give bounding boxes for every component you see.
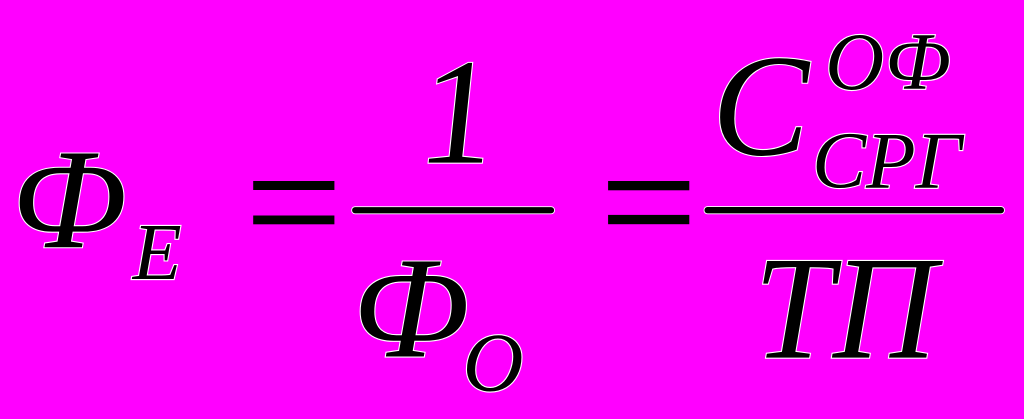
svg-text:С: С bbox=[712, 26, 811, 187]
fraction bar of right fraction bbox=[705, 207, 1005, 213]
svg-text:О: О bbox=[463, 317, 524, 410]
first equals sign bbox=[253, 181, 334, 224]
svg-text:Ф: Ф bbox=[352, 229, 469, 389]
fraction bar of middle fraction bbox=[352, 207, 554, 213]
second equals sign bbox=[608, 181, 689, 224]
svg-text:Е: Е bbox=[132, 209, 182, 297]
svg-text:ТП: ТП bbox=[754, 227, 943, 390]
svg-text:ОФ: ОФ bbox=[825, 16, 950, 107]
svg-text:Ф: Ф bbox=[11, 120, 126, 278]
svg-text:СРГ: СРГ bbox=[812, 115, 965, 205]
